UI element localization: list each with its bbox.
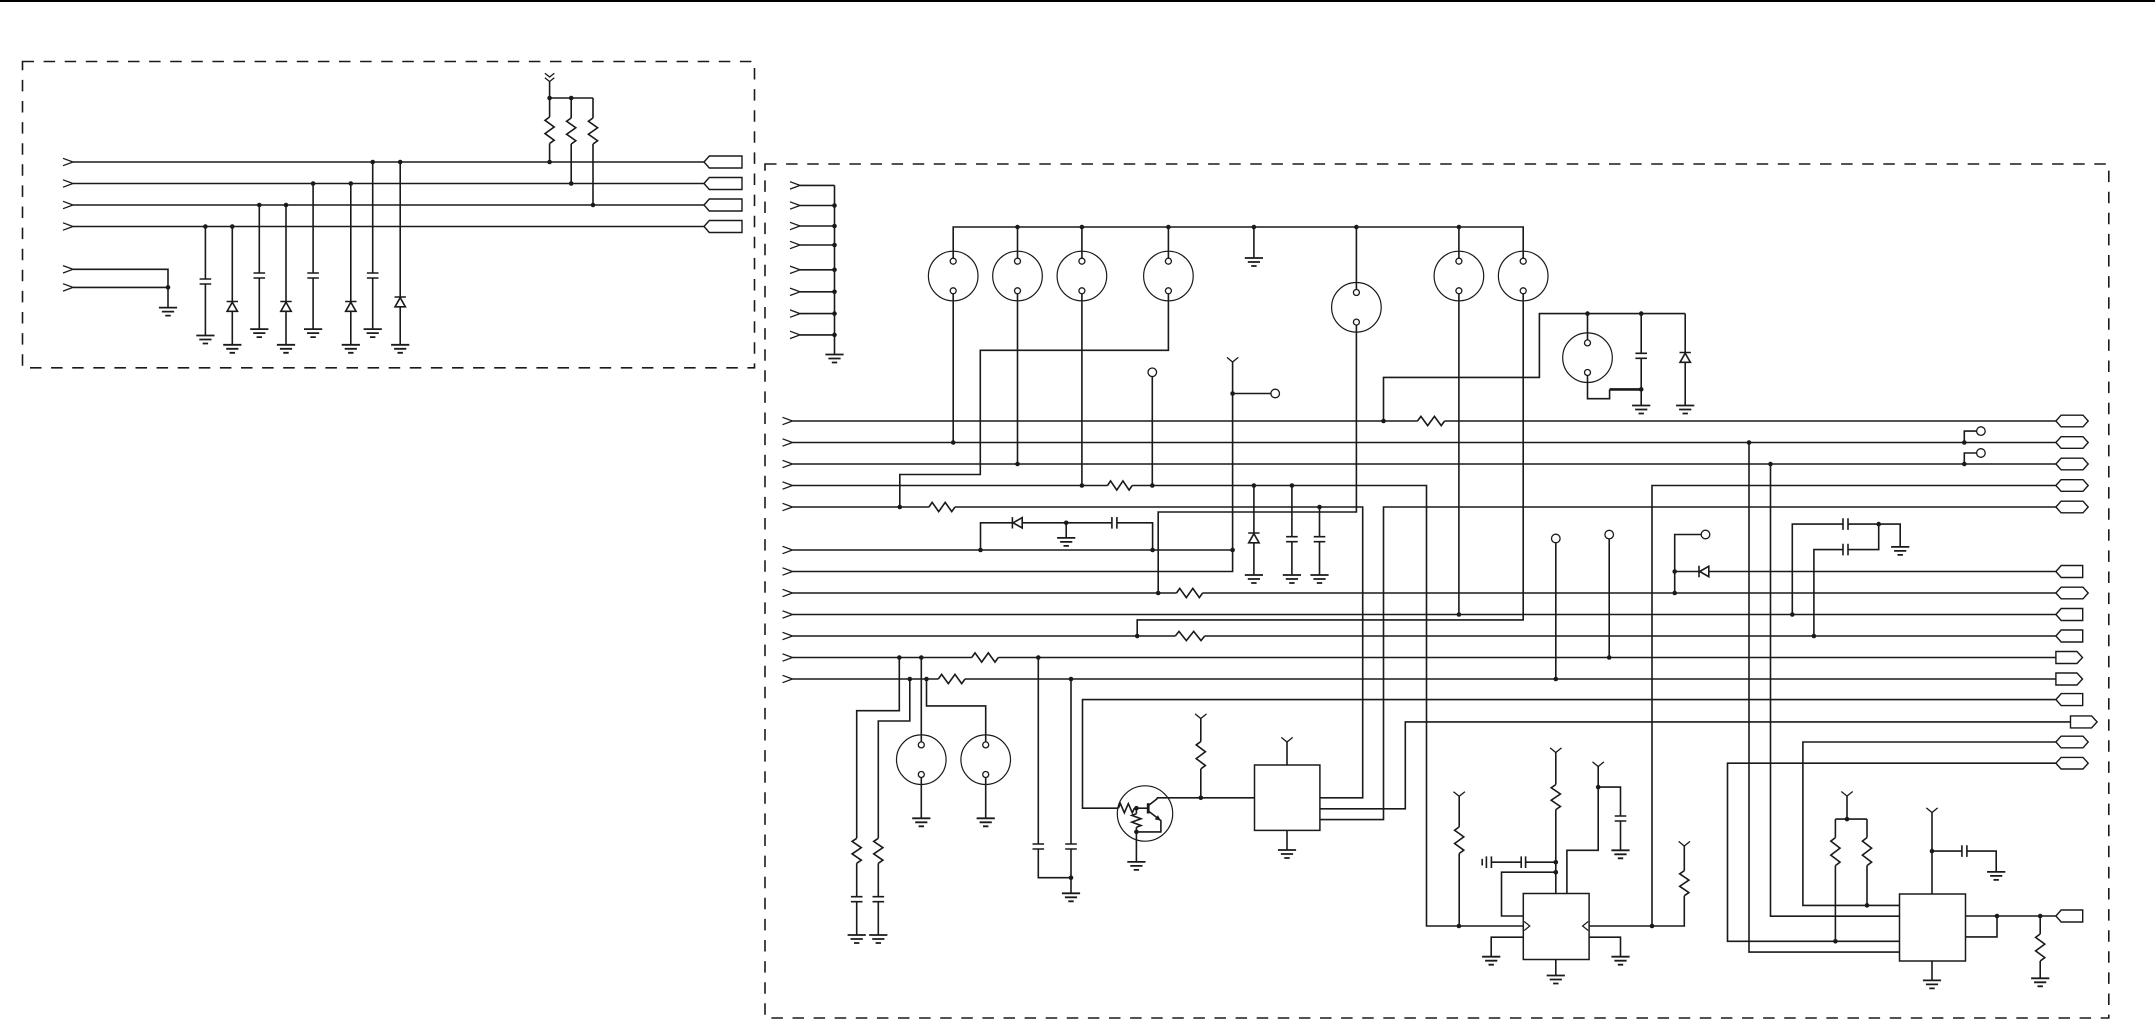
wire lamp supply rail xyxy=(953,227,1523,258)
flag bus3 xyxy=(2056,458,2088,470)
wire C9 net xyxy=(1814,550,1843,636)
wire DS2 top xyxy=(1017,227,1019,258)
junction DS10-bus12 xyxy=(924,677,929,682)
capacitor C15 xyxy=(1482,856,1521,868)
wire DS6 bottom to bus9 xyxy=(1458,294,1460,615)
ground DS10 xyxy=(977,818,995,826)
wire stem C2 lower xyxy=(258,278,260,329)
wire C10 bottom xyxy=(1038,849,1071,878)
junction out-b xyxy=(2038,914,2043,919)
wire DS8 bottom jog xyxy=(1588,376,1610,399)
capacitor C7 xyxy=(1314,537,1326,542)
capacitor C3 xyxy=(307,273,319,278)
ground Q1 xyxy=(1127,862,1145,870)
ground D5 xyxy=(1676,406,1694,414)
input arrow group-8 #3 xyxy=(790,222,800,229)
wire R2 top xyxy=(570,98,572,118)
junction Q1 emitter node xyxy=(1134,830,1139,835)
flag bus10 xyxy=(2056,630,2083,642)
junction bus2-term xyxy=(1962,440,1967,445)
wire bus7 xyxy=(793,550,1233,572)
wire bus6 xyxy=(793,549,1233,551)
ground group-8 xyxy=(825,355,843,363)
wire stair1 xyxy=(857,658,900,839)
wire U2 bottom pin xyxy=(1555,960,1557,976)
junction C9-bus10 xyxy=(1812,634,1817,639)
wire y485 riser xyxy=(1652,486,2056,927)
ground D3 xyxy=(342,345,360,353)
power symbol Y9 xyxy=(1926,808,1937,813)
wire stem D2 lower xyxy=(285,311,287,345)
wire D5 top xyxy=(1684,314,1686,353)
junction term-bus12 xyxy=(1554,677,1559,682)
junction R-U2 pin xyxy=(1457,924,1462,929)
dashed sheet border (main block) xyxy=(765,164,2109,1018)
wire R14 top xyxy=(1135,808,1137,814)
wire stem C4 upper xyxy=(372,162,374,273)
ground D2 xyxy=(277,345,295,353)
diode D1 xyxy=(227,302,238,312)
wire Y1 stem xyxy=(1232,362,1234,550)
wire bus line 4 xyxy=(73,226,704,228)
input arrow bus11 xyxy=(783,654,793,661)
junction group-8 xyxy=(832,311,837,316)
wire subcircuit to cap xyxy=(1066,522,1112,524)
flag y485 net xyxy=(2056,480,2088,492)
junction sub-bus6 a xyxy=(978,548,983,553)
junction stem C3 xyxy=(311,181,316,186)
transistor Q1 collector stroke xyxy=(1148,798,1157,806)
wire stem C3 upper xyxy=(312,184,314,274)
wire bus11 xyxy=(793,657,2056,659)
input arrow bus9 xyxy=(783,611,793,618)
wire C7 bottom xyxy=(1319,542,1321,575)
wire U1 right pin2 xyxy=(1320,722,2071,809)
junction C10-C11 xyxy=(1069,875,1074,880)
capacitor C10 xyxy=(1033,844,1045,849)
junction DS3-bus4 xyxy=(1080,483,1085,488)
capacitor C13 xyxy=(851,897,863,902)
wire stem D3 upper xyxy=(350,184,352,302)
power symbol Y2 xyxy=(1281,737,1292,742)
ground C18 xyxy=(1987,872,2005,880)
power arrow V+ xyxy=(545,73,554,81)
wire bus12 xyxy=(793,678,2056,680)
wire R13 to base xyxy=(1134,807,1147,809)
wire U2 bottom-right stub xyxy=(1589,937,1620,957)
wire stem C3 lower xyxy=(312,278,314,329)
input arrow group-8 #4 xyxy=(790,241,800,248)
input arrow aux 1 xyxy=(63,266,73,273)
junction DS1-bus2 xyxy=(951,440,956,445)
wire R19 R20 top bar xyxy=(1835,818,1867,820)
resistor R5 bus4 xyxy=(1108,481,1133,490)
resistor R20 xyxy=(1862,838,1871,866)
flag U1 pin2 net xyxy=(2071,716,2098,728)
wire R21 top xyxy=(2039,916,2041,934)
wire U2 right pin xyxy=(1589,896,1684,926)
junction DS7-bus10 xyxy=(1135,634,1140,639)
resistor R16 xyxy=(1455,827,1464,854)
wire stem D1 lower xyxy=(231,311,233,345)
transistor Q1 emitter stroke xyxy=(1136,811,1161,832)
capacitor C5 xyxy=(1635,353,1647,358)
wire R16 bottom xyxy=(1458,854,1460,927)
wire DS3 bottom to bus4 xyxy=(1081,294,1083,486)
input arrow bus line 3 xyxy=(63,201,73,208)
flag bus11 xyxy=(2056,652,2083,664)
ground DS9 xyxy=(912,818,930,826)
wire aux down xyxy=(167,287,169,307)
flag net label line 2 xyxy=(704,178,742,190)
wire C11 bottom xyxy=(1070,849,1072,893)
wire R19 top xyxy=(1834,819,1836,838)
junction Y8 node xyxy=(1845,817,1850,822)
flag bus2 xyxy=(2056,437,2088,449)
terminal circle bus3 xyxy=(1977,449,1986,458)
wire R1 top xyxy=(549,98,551,117)
power symbol Y8 xyxy=(1841,792,1852,797)
transistor Q1 emitter arrowhead xyxy=(1155,815,1161,820)
ground C13 xyxy=(848,935,866,943)
junction U2 right node xyxy=(1650,924,1655,929)
wire R3 top xyxy=(592,98,594,118)
ground C10 C11 xyxy=(1062,893,1080,901)
wire subcircuit mid xyxy=(1022,522,1066,524)
capacitor C17 xyxy=(1615,816,1627,821)
wire DS4 bottom to bus5 xyxy=(900,294,1169,507)
wire U2 feedback loop xyxy=(1502,872,1556,916)
diode D6 xyxy=(1248,533,1259,543)
wire C5 bottom xyxy=(1640,358,1642,405)
wire R2 bottom xyxy=(570,144,572,184)
resistor R17 xyxy=(1551,785,1560,810)
ground D6 xyxy=(1245,575,1263,583)
wire R17 bottom to U2 xyxy=(1555,810,1557,894)
wire bus2 xyxy=(793,442,2056,444)
junction R20-U3pin1 xyxy=(1865,903,1870,908)
lamp DS9 xyxy=(897,735,947,785)
junction bus3-U3 xyxy=(1768,462,1773,467)
wire DS10 top xyxy=(927,679,986,742)
flag bus1 xyxy=(2056,415,2088,427)
wire U3 pin3 net (y763) xyxy=(1728,763,2056,941)
wire bus1 xyxy=(793,420,2056,422)
wire DS8 thick link xyxy=(1610,388,1642,391)
wire aux 1 xyxy=(73,269,168,287)
wire T3 to bus11 xyxy=(1608,539,1610,658)
wire D5 bottom xyxy=(1684,362,1686,405)
junction stem D4 xyxy=(398,160,403,165)
power symbol Y3 xyxy=(1195,714,1206,719)
wire stem D4 upper xyxy=(399,162,401,297)
input arrow bus2 xyxy=(783,439,793,446)
terminal circle bus2 xyxy=(1977,427,1986,436)
ground C6 xyxy=(1283,575,1301,583)
junction T4-D7 xyxy=(1672,569,1677,574)
wire stem D4 lower xyxy=(399,307,401,345)
flag bus12 xyxy=(2056,673,2083,685)
wire terminal bus2 xyxy=(1964,431,1976,442)
ground C4 xyxy=(364,329,382,337)
wire group-8 #7 xyxy=(800,313,835,315)
wire stem C1 lower xyxy=(204,284,206,336)
wire subcircuit gnd stub xyxy=(1065,523,1067,538)
input arrow bus line 2 xyxy=(63,180,73,187)
wire C17 branch xyxy=(1598,787,1620,816)
wire DS5 bottom to bus8 xyxy=(1158,325,1356,593)
wire group-8 #3 xyxy=(800,225,835,227)
ground U2 center xyxy=(1547,976,1565,984)
wire R18 top xyxy=(1683,846,1685,871)
flag y763 net xyxy=(2056,757,2088,769)
terminal circle T2 xyxy=(1552,534,1561,543)
wire D7 anode-side xyxy=(1675,571,1699,573)
resistor R11 xyxy=(852,838,861,863)
diode D3 xyxy=(345,302,356,312)
junction sub-bus6 b xyxy=(1150,548,1155,553)
junction group-8 xyxy=(832,203,837,208)
wire R11-C13 xyxy=(856,863,858,896)
wire U3 out pin2 xyxy=(1966,916,1998,937)
wire R3 bottom xyxy=(592,144,594,205)
flag y742 net xyxy=(2056,736,2088,748)
junction aux xyxy=(166,285,171,290)
junction Q1 base node xyxy=(1134,806,1139,811)
junction rail xyxy=(1354,225,1359,230)
wire bus10 xyxy=(793,635,2056,637)
junction C7-bus5 xyxy=(1317,505,1322,510)
wire DS9 top xyxy=(920,658,922,742)
ground subcircuit xyxy=(1057,538,1075,546)
ground C1 xyxy=(196,336,214,344)
junction R19-U3pin3 xyxy=(1833,939,1838,944)
wire C14-gnd xyxy=(877,902,879,935)
junction Y9 cap node xyxy=(1930,849,1935,854)
op-amp U3 body xyxy=(1900,894,1966,961)
junction rail xyxy=(1166,225,1171,230)
wire bus8 xyxy=(793,592,2056,594)
junction bus2-U3 xyxy=(1747,440,1752,445)
wire U1 gnd xyxy=(1286,830,1288,850)
wire group-8 #8 xyxy=(800,334,835,336)
wire bus4 xyxy=(793,486,1524,927)
capacitor C12 xyxy=(1112,517,1117,529)
junction stem D3 xyxy=(349,181,354,186)
ground D1 xyxy=(223,345,241,353)
ground C5 xyxy=(1632,406,1650,414)
op-amp U2 body xyxy=(1523,894,1589,960)
lamp DS4 xyxy=(1144,251,1194,301)
wire U1 vcc xyxy=(1286,742,1288,765)
wire T2 to bus12 xyxy=(1555,543,1557,679)
wire U3 out pin1 xyxy=(1966,915,2056,917)
dashed sheet border (top-left block) xyxy=(23,62,755,368)
flag base net xyxy=(2056,694,2083,706)
input arrow group-8 #5 xyxy=(790,266,800,273)
lamp DS8 xyxy=(1563,333,1613,383)
input arrow bus12 xyxy=(783,675,793,682)
ground rail xyxy=(1245,258,1263,266)
wire group-8 #4 xyxy=(800,244,835,246)
input arrow aux 2 xyxy=(63,284,73,291)
capacitor C9 xyxy=(1843,544,1848,556)
resistor R14 internal xyxy=(1132,814,1141,828)
input arrow group-8 #7 xyxy=(790,310,800,317)
wire C18 line xyxy=(1932,851,1996,872)
junction bus1 feed xyxy=(1381,419,1386,424)
wire Q1 emitter ground xyxy=(1135,832,1137,862)
wire DS5 top xyxy=(1355,227,1357,290)
diode D7 xyxy=(1699,566,1709,577)
junction term-bus4 xyxy=(1150,483,1155,488)
capacitor C14 xyxy=(873,897,885,902)
wire stem D1 upper xyxy=(231,227,233,302)
power symbol Y6 xyxy=(1679,841,1690,846)
wire Q1 base net from gamma xyxy=(1083,700,2056,809)
resistor R15 xyxy=(1196,742,1205,769)
capacitor C4 xyxy=(367,273,379,278)
capacitor C6 xyxy=(1286,537,1298,542)
wire DS3 top xyxy=(1081,227,1083,258)
capacitor C8 xyxy=(1843,518,1848,530)
junction DS8 top xyxy=(1585,311,1590,316)
junction rail xyxy=(1080,225,1085,230)
wire terminal bus3 xyxy=(1964,453,1976,464)
junction group-8 xyxy=(832,268,837,273)
wire cap node to ground xyxy=(1879,524,1901,547)
junction C5 top xyxy=(1639,311,1644,316)
capacitor C16 xyxy=(1521,856,1556,868)
resistor R10 bus12 xyxy=(938,674,965,683)
junction U2 loop node xyxy=(1554,870,1559,875)
wire T4 elbow xyxy=(1675,535,1702,594)
junction R2-line2 xyxy=(569,181,574,186)
wire DS7 bottom to bus10 xyxy=(1137,294,1523,636)
wire Y9 stem to U3 xyxy=(1931,813,1933,895)
flag U3 output xyxy=(2056,910,2083,922)
wire DS4 top xyxy=(1167,227,1169,258)
wire C8 net xyxy=(1792,524,1843,614)
wire U3 pin2 to bus3 xyxy=(1771,464,1900,916)
ground cap pair xyxy=(1891,547,1909,555)
junction DS2-bus3 xyxy=(1015,462,1020,467)
wire group-8 #6 xyxy=(800,291,835,293)
junction term-bus11 xyxy=(1607,655,1612,660)
lamp DS2 xyxy=(993,251,1043,301)
lamp DS6 xyxy=(1434,251,1484,301)
ground aux xyxy=(159,308,177,316)
wire U2 top pin2 xyxy=(1567,787,1598,893)
wire group-8 #1 xyxy=(800,184,835,186)
ground U3 xyxy=(1923,980,1941,988)
input arrow bus10 xyxy=(783,632,793,639)
junction group-8 xyxy=(832,333,837,338)
wire DS8 top xyxy=(1587,314,1589,340)
input arrow bus6 xyxy=(783,546,793,553)
wire R12-C14 xyxy=(877,863,879,896)
wire DS2 bottom to bus3 xyxy=(1017,294,1019,464)
resistor R13 base xyxy=(1118,804,1134,813)
wire stem C2 upper xyxy=(258,205,260,273)
junction group-8 xyxy=(832,290,837,295)
ground C3 xyxy=(304,329,322,337)
wire Y3 stem xyxy=(1200,719,1202,742)
resistor R9 bus11 xyxy=(972,653,999,662)
wire bus3 xyxy=(793,463,2056,465)
lamp DS1 xyxy=(928,251,978,301)
terminal circle Y1 xyxy=(1271,389,1280,398)
diode D4 xyxy=(395,297,406,307)
wire D7 to flag xyxy=(1709,571,2056,573)
junction U2 cap node xyxy=(1554,860,1559,865)
wire DS10 bottom xyxy=(985,778,987,819)
wire C6 top xyxy=(1291,486,1293,537)
wire DS6 top xyxy=(1458,227,1460,258)
junction stem D1 xyxy=(230,224,235,229)
ground D4 xyxy=(391,345,409,353)
wire Y4 stem xyxy=(1555,753,1557,785)
lamp DS10 xyxy=(961,735,1011,785)
ground C7 xyxy=(1310,575,1328,583)
input arrow bus line 4 xyxy=(63,223,73,230)
flag bus8 xyxy=(2056,587,2088,599)
junction stem C1 xyxy=(203,224,208,229)
wire DS8 feed from bus1 xyxy=(1384,314,1686,421)
junction rail xyxy=(1457,225,1462,230)
wire group-8 #5 xyxy=(800,269,835,271)
resistor R7 bus8 xyxy=(1177,588,1203,597)
ground C14 xyxy=(869,935,887,943)
input arrow bus8 xyxy=(783,589,793,596)
power symbol Y1 xyxy=(1227,357,1238,362)
junction stem C4 xyxy=(370,160,375,165)
wire stem D3 lower xyxy=(350,311,352,345)
wire Y8 stem xyxy=(1846,796,1848,819)
junction C6-bus4 xyxy=(1290,483,1295,488)
flag bus9 xyxy=(2056,609,2083,621)
wire R20 bottom xyxy=(1866,866,1868,906)
junction rail xyxy=(1252,225,1257,230)
transistor Q1 base bar xyxy=(1147,803,1150,813)
capacitor C18 xyxy=(1962,845,1967,857)
capacitor C1 xyxy=(200,279,212,284)
wire group-8 #2 xyxy=(800,205,835,207)
wire R15 bottom xyxy=(1200,769,1202,798)
resistor R19 xyxy=(1831,838,1840,866)
wire stair2 xyxy=(878,679,910,838)
junction R3-line3 xyxy=(591,203,596,208)
wire bus line 3 xyxy=(73,204,704,206)
ground U2 left xyxy=(1482,957,1500,965)
lamp DS3 xyxy=(1057,251,1107,301)
resistor R6 bus5 xyxy=(929,502,955,511)
lamp DS7 xyxy=(1498,251,1548,301)
ground U1 xyxy=(1278,850,1296,858)
resistor R3 xyxy=(588,118,597,144)
wire R14 bottom xyxy=(1135,827,1137,832)
junction stair1-bus11 xyxy=(897,655,902,660)
junction xyxy=(569,96,574,101)
junction stair2-bus12 xyxy=(908,677,913,682)
wire D6 top xyxy=(1253,486,1255,534)
diode D8 xyxy=(1012,517,1022,528)
wire DS1 bottom to bus2 xyxy=(952,294,954,443)
flag net label line 1 xyxy=(704,156,742,168)
wire resistor top bus xyxy=(550,97,593,99)
flag net label line 3 xyxy=(704,199,742,211)
resistor R18 xyxy=(1680,871,1689,896)
